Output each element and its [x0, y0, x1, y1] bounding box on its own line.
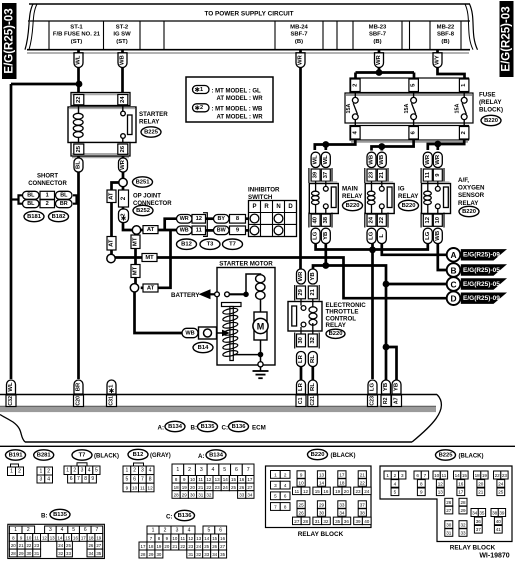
svg-text:26: 26 — [446, 500, 452, 505]
solenoid connector box w/ circle — [199, 327, 217, 339]
svg-text:7: 7 — [95, 527, 98, 533]
svg-text:B:: B: — [191, 425, 198, 432]
ECM pin C20 label BR — [74, 380, 83, 394]
svg-text:MB-24: MB-24 — [290, 24, 308, 30]
svg-text:12: 12 — [42, 535, 47, 540]
wire L IG relay to A arrow — [382, 244, 447, 255]
svg-text:B220: B220 — [484, 118, 498, 124]
svg-text:35: 35 — [479, 510, 485, 515]
svg-text:A:: A: — [158, 425, 165, 432]
svg-text:3: 3 — [176, 527, 179, 533]
svg-text:31: 31 — [315, 519, 321, 524]
starter relay coil — [73, 113, 83, 119]
solenoid S terminal arrow — [222, 330, 230, 337]
starter relay pin 22 — [74, 95, 84, 105]
svg-text:22: 22 — [379, 216, 385, 223]
a/f oxygen sensor relay pin 11 — [423, 169, 432, 181]
svg-text:(BLACK): (BLACK) — [331, 453, 356, 459]
svg-text:RELAY: RELAY — [139, 119, 160, 126]
svg-text:24: 24 — [364, 489, 370, 494]
svg-text:10: 10 — [435, 216, 441, 223]
svg-text:20: 20 — [344, 489, 350, 494]
svg-text:B135: B135 — [201, 424, 216, 430]
svg-text:WR: WR — [425, 154, 431, 165]
main relay wire label YB right — [321, 228, 330, 243]
to power supply circuit band — [25, 4, 478, 53]
junction dot motor ground — [258, 352, 264, 358]
svg-text:27: 27 — [96, 543, 101, 548]
wire AT box to WB11 and WR12 — [141, 229, 177, 232]
svg-text:ST-2: ST-2 — [116, 24, 129, 30]
svg-text:23: 23 — [188, 544, 193, 549]
svg-text:10: 10 — [190, 477, 196, 482]
svg-text:T7: T7 — [79, 452, 86, 458]
svg-text:29: 29 — [182, 492, 188, 497]
svg-text:MT: MT — [133, 266, 139, 275]
svg-text:13: 13 — [215, 477, 221, 482]
svg-text:4: 4 — [47, 476, 50, 482]
svg-text:21: 21 — [379, 171, 385, 178]
svg-text:38: 38 — [492, 510, 498, 515]
label MT lower — [131, 265, 140, 278]
svg-text:OXYGEN: OXYGEN — [458, 185, 485, 192]
pin label BY 8 — [214, 215, 230, 224]
svg-text:30: 30 — [319, 510, 325, 515]
svg-text:3: 3 — [200, 467, 203, 473]
starter relay contact bar — [128, 115, 133, 135]
svg-text:BY: BY — [217, 216, 225, 222]
svg-text:10: 10 — [434, 473, 440, 478]
svg-text:BR: BR — [60, 201, 68, 207]
svg-text:SHORT: SHORT — [37, 174, 58, 180]
svg-text:39: 39 — [313, 171, 319, 178]
wire 11 to BW — [206, 229, 214, 232]
svg-text:9: 9 — [300, 472, 303, 477]
svg-text:A:: A: — [198, 453, 205, 460]
svg-text:25: 25 — [76, 145, 82, 152]
svg-text:ST-1: ST-1 — [70, 24, 83, 30]
svg-text:21: 21 — [19, 543, 24, 548]
svg-text:5: 5 — [223, 467, 226, 473]
a/f oxygen sensor relay pin 12 — [423, 214, 432, 226]
svg-text:B136: B136 — [178, 513, 193, 519]
svg-text:30: 30 — [190, 492, 196, 497]
svg-text:WB: WB — [180, 228, 189, 234]
svg-text:B14: B14 — [198, 345, 209, 351]
relay block B225 grid — [380, 466, 512, 542]
svg-text:MB-22: MB-22 — [437, 24, 455, 30]
svg-text:B220: B220 — [311, 452, 325, 458]
svg-text:LR: LR — [298, 382, 304, 391]
svg-text:4: 4 — [88, 468, 91, 474]
ig relay wire label WB left — [367, 152, 376, 167]
junction circle AT lower — [130, 284, 138, 292]
oval B12 (GRAY) — [128, 449, 148, 459]
etc relay coil — [309, 307, 317, 313]
svg-text:(ST): (ST) — [71, 39, 82, 45]
ig relay pin 21 — [377, 169, 386, 181]
wire contact to coil — [230, 293, 247, 295]
connector MB-24 SBF-7 — [290, 24, 308, 45]
svg-text:11: 11 — [442, 473, 447, 478]
a/f oxygen sensor relay name text — [458, 177, 485, 207]
junction dot WL branch — [76, 81, 83, 88]
connector MB-23 SBF-7 — [369, 24, 387, 45]
svg-text:TO POWER SUPPLY CIRCUIT: TO POWER SUPPLY CIRCUIT — [204, 11, 293, 18]
svg-text:13: 13 — [196, 536, 201, 541]
svg-text:LG: LG — [313, 231, 319, 240]
svg-text:C31: C31 — [109, 396, 115, 406]
svg-text:35: 35 — [96, 551, 101, 556]
svg-text:33: 33 — [339, 502, 345, 507]
svg-text:(ST): (ST) — [116, 39, 127, 45]
svg-text:B:: B: — [41, 513, 48, 520]
short connector B181/B182 — [11, 191, 77, 207]
ig relay pin 23 — [367, 169, 376, 181]
ECM pin C23 label LG — [368, 380, 377, 394]
svg-text:BL: BL — [27, 201, 35, 207]
oval B191 — [6, 450, 26, 460]
svg-text:3: 3 — [49, 527, 52, 533]
pin label WB 11 — [177, 226, 193, 235]
svg-text:25: 25 — [299, 502, 305, 507]
wire fuse4 to main relay pins — [315, 140, 356, 150]
oval B281 — [34, 450, 54, 460]
svg-text:B135: B135 — [53, 512, 68, 518]
pin label BW 9 — [214, 226, 230, 235]
svg-text:4: 4 — [284, 483, 287, 488]
svg-text:33: 33 — [204, 552, 209, 557]
svg-text:D: D — [450, 294, 456, 304]
oval B181 — [24, 211, 44, 221]
svg-text:25: 25 — [204, 544, 209, 549]
oval B225 (BLACK) — [436, 450, 456, 460]
starter relay contact circle upper — [121, 111, 126, 116]
svg-text:3: 3 — [81, 468, 84, 474]
label AT at lower junction — [143, 284, 158, 292]
svg-text:RL: RL — [310, 355, 316, 363]
fuse 15A no.1 — [346, 92, 358, 127]
svg-text:27: 27 — [294, 519, 300, 524]
svg-text:F/B FUSE NO. 21: F/B FUSE NO. 21 — [53, 32, 101, 38]
wire YB net to ETC pin21 and down to ECM — [313, 266, 386, 381]
svg-text:7: 7 — [274, 504, 277, 509]
svg-text:34: 34 — [472, 510, 478, 515]
svg-text:30: 30 — [298, 336, 304, 343]
wire WL branch to left rail — [11, 83, 79, 86]
svg-text:4: 4 — [61, 527, 64, 533]
wire WR starter relay pin26 to joint connector — [122, 156, 125, 179]
svg-text:M: M — [257, 322, 265, 332]
svg-text:C:: C: — [166, 514, 173, 521]
svg-text:AT: AT — [109, 239, 115, 247]
ig relay coil — [371, 181, 373, 191]
svg-text:N: N — [276, 204, 280, 210]
a/f oxygen sensor relay coil — [427, 181, 429, 191]
connector B:B135 grid — [8, 524, 105, 558]
svg-text:SBF-7: SBF-7 — [290, 32, 308, 38]
svg-text:14: 14 — [57, 535, 62, 540]
svg-text:24: 24 — [58, 543, 63, 548]
junction dot WR feed — [376, 69, 383, 76]
svg-text:(B): (B) — [373, 39, 381, 45]
svg-text:24: 24 — [120, 96, 126, 103]
svg-text:1: 1 — [274, 472, 277, 477]
starter plunger T-bar and rod — [222, 303, 242, 307]
label WY MB-22 — [433, 53, 442, 68]
svg-text:8: 8 — [284, 504, 287, 509]
svg-text:WB: WB — [185, 330, 194, 336]
svg-text:4: 4 — [212, 467, 215, 473]
svg-text:5: 5 — [394, 490, 397, 495]
wire fuse2 to AF relay pins — [428, 140, 464, 150]
op joint connector 2-circuit box — [119, 190, 129, 207]
svg-text:7: 7 — [247, 467, 250, 473]
svg-text:13: 13 — [50, 535, 55, 540]
svg-text:24: 24 — [498, 481, 504, 486]
svg-text:24: 24 — [223, 485, 229, 490]
svg-text:17: 17 — [141, 544, 146, 549]
svg-text:B225: B225 — [144, 129, 159, 135]
main relay pin bracket bottom — [308, 213, 310, 228]
legend note box *1 *2 model table — [186, 77, 273, 122]
svg-text:32: 32 — [196, 552, 201, 557]
etc relay out label RL — [308, 352, 317, 367]
svg-text:39: 39 — [499, 510, 505, 515]
ground symbol — [260, 367, 262, 371]
oval B220 (BLACK) — [308, 449, 328, 459]
svg-text:WR: WR — [120, 159, 126, 170]
wire WR from MB-23 to fuse block — [378, 50, 381, 73]
oval B182 — [49, 211, 69, 221]
svg-text:C: C — [450, 279, 456, 289]
svg-text:11: 11 — [198, 477, 203, 482]
svg-text:16: 16 — [239, 477, 245, 482]
svg-text:6: 6 — [133, 476, 136, 482]
ig relay body box — [365, 184, 394, 214]
svg-text:20: 20 — [478, 481, 484, 486]
svg-text:ECM: ECM — [252, 425, 266, 432]
svg-text:31: 31 — [446, 530, 452, 535]
svg-text:8: 8 — [149, 476, 152, 482]
svg-text:B182: B182 — [52, 214, 66, 220]
svg-text:2: 2 — [27, 527, 30, 533]
ig relay pin bracket top — [364, 168, 366, 183]
a/f oxygen sensor relay pin bracket bottom — [420, 213, 422, 228]
junction circle MT/AT split — [132, 226, 140, 234]
connector T7 pins — [77, 463, 87, 467]
wire WB from ST-2 to starter relay pin 24 — [121, 50, 124, 93]
svg-text:7: 7 — [424, 473, 427, 478]
svg-text:YB: YB — [383, 383, 389, 391]
svg-text:6: 6 — [70, 476, 73, 482]
etc relay out label LR — [297, 352, 306, 367]
svg-text:1: 1 — [152, 527, 155, 533]
svg-text:10: 10 — [172, 536, 177, 541]
wire MT line to D arrow — [115, 258, 447, 299]
svg-text:1: 1 — [10, 469, 13, 475]
svg-text:5: 5 — [72, 527, 75, 533]
svg-text:23: 23 — [215, 485, 221, 490]
svg-text:LG: LG — [370, 382, 376, 391]
svg-text:(B): (B) — [295, 39, 303, 45]
svg-text:1: 1 — [66, 468, 69, 474]
svg-text:BW: BW — [217, 228, 227, 234]
oval B220 fuse block — [481, 115, 501, 125]
svg-text:B220: B220 — [346, 203, 360, 209]
svg-text:36: 36 — [476, 519, 482, 524]
svg-text:38: 38 — [360, 510, 366, 515]
arrow D E/G(R25)-09 — [447, 291, 507, 305]
svg-text:19: 19 — [182, 485, 188, 490]
a/f oxygen sensor relay pin 10 — [433, 214, 442, 226]
svg-text:24: 24 — [196, 544, 201, 549]
svg-text:6: 6 — [284, 494, 287, 499]
a/f oxygen sensor relay wire label LG left — [423, 228, 432, 243]
main relay coil — [315, 181, 317, 191]
svg-text:21: 21 — [478, 490, 484, 495]
svg-text:C20: C20 — [76, 396, 82, 406]
junction dot AF relay feed — [434, 141, 441, 148]
wire WY from MB-22 to fuse block — [438, 50, 465, 79]
svg-text:MT: MT — [133, 237, 139, 246]
main relay name text — [342, 186, 363, 201]
svg-text:28: 28 — [303, 519, 309, 524]
svg-text:18: 18 — [339, 480, 345, 485]
svg-text:13: 13 — [438, 490, 444, 495]
starter relay top pin row box — [71, 93, 130, 106]
svg-text:B251: B251 — [136, 179, 151, 185]
svg-text:26: 26 — [88, 543, 93, 548]
svg-text:1: 1 — [386, 473, 389, 478]
svg-text:21: 21 — [310, 288, 316, 295]
main relay pin 40 — [311, 214, 320, 226]
svg-text:10: 10 — [132, 485, 138, 490]
svg-text:RELAY: RELAY — [398, 193, 419, 200]
svg-text:7: 7 — [141, 476, 144, 482]
svg-text:6: 6 — [416, 473, 419, 478]
svg-text:37: 37 — [323, 171, 329, 178]
svg-text:RELAY: RELAY — [342, 193, 363, 200]
svg-text:2: 2 — [18, 469, 21, 475]
svg-text:WR: WR — [298, 54, 304, 65]
svg-text:WR: WR — [298, 271, 304, 282]
svg-text:23: 23 — [369, 171, 375, 178]
svg-text:2: 2 — [394, 473, 397, 478]
page label bar right E/G(R25)-03 — [500, 1, 514, 77]
svg-text:25: 25 — [231, 485, 237, 490]
svg-text:22: 22 — [76, 96, 82, 103]
svg-text:2: 2 — [188, 467, 191, 473]
svg-text:WR: WR — [376, 54, 382, 65]
svg-text:33: 33 — [66, 551, 71, 556]
fuse block feed line from MB-23 — [356, 71, 415, 74]
svg-text:6: 6 — [235, 467, 238, 473]
svg-text:IG SW: IG SW — [113, 32, 131, 38]
svg-text:14: 14 — [223, 477, 229, 482]
svg-text:(RELAY: (RELAY — [479, 99, 502, 106]
svg-text:AT: AT — [147, 227, 155, 233]
svg-text:AT MODEL : WR: AT MODEL : WR — [217, 96, 264, 102]
svg-text:B220: B220 — [329, 331, 343, 337]
svg-text:2: 2 — [120, 196, 127, 200]
svg-text:MAIN: MAIN — [342, 186, 358, 193]
svg-text:40: 40 — [364, 519, 370, 524]
svg-text:37: 37 — [476, 527, 482, 532]
svg-text:C:: C: — [222, 425, 229, 432]
svg-text:2: 2 — [164, 527, 167, 533]
svg-text:22: 22 — [206, 485, 212, 490]
svg-text:R2: R2 — [383, 397, 389, 404]
svg-text:41: 41 — [496, 527, 502, 532]
svg-text:30: 30 — [26, 551, 31, 556]
svg-text:4: 4 — [394, 481, 397, 486]
svg-text:17: 17 — [458, 490, 464, 495]
svg-text:B220: B220 — [402, 203, 416, 209]
etc relay pin label YB — [308, 269, 317, 284]
ECM pin C31 label &#160;1 — [107, 380, 116, 394]
oval B12 — [177, 239, 197, 249]
svg-text:RELAY BLOCK: RELAY BLOCK — [298, 531, 344, 538]
etc relay pin brackets bottom — [294, 333, 296, 349]
svg-text:35: 35 — [220, 552, 225, 557]
svg-text:B191: B191 — [9, 452, 24, 458]
svg-text:E/G(R25)-03: E/G(R25)-03 — [501, 6, 513, 71]
etc relay pin 30 — [297, 334, 306, 347]
svg-text:C32: C32 — [8, 396, 14, 406]
arrow C E/G(R25)-05 — [447, 277, 507, 291]
svg-text:YB: YB — [310, 272, 316, 280]
svg-text:32: 32 — [58, 551, 63, 556]
svg-text:(BLACK): (BLACK) — [94, 454, 119, 460]
svg-text:6: 6 — [84, 527, 87, 533]
svg-text:5: 5 — [95, 468, 98, 474]
svg-text:16: 16 — [458, 481, 464, 486]
svg-text:19: 19 — [156, 544, 161, 549]
svg-text:3: 3 — [39, 476, 42, 482]
svg-text:18: 18 — [174, 485, 180, 490]
svg-text:28: 28 — [460, 500, 466, 505]
svg-text:34: 34 — [88, 551, 93, 556]
svg-text:17: 17 — [247, 477, 253, 482]
starter relay body box — [68, 107, 136, 143]
page label bar left E/G(R25)-03 — [2, 3, 17, 79]
MT rail junction circle — [107, 254, 115, 262]
oval T3 — [200, 239, 220, 249]
svg-text:WB: WB — [120, 55, 126, 65]
svg-text:34: 34 — [247, 492, 253, 497]
label WR MB-23 — [375, 53, 384, 68]
svg-text:STARTER: STARTER — [139, 111, 168, 118]
wire YB main relay down — [324, 244, 327, 266]
wire up to solenoid coil — [246, 274, 261, 294]
ig relay name text — [398, 186, 419, 201]
svg-text:SBF-7: SBF-7 — [369, 32, 387, 38]
svg-text:B225: B225 — [439, 452, 454, 458]
svg-text:E/G(R25)-09: E/G(R25)-09 — [463, 295, 500, 302]
wire 12 to BY — [206, 217, 214, 220]
wire coil to motor — [260, 299, 262, 313]
svg-text:1: 1 — [176, 467, 179, 473]
svg-text:31: 31 — [34, 551, 39, 556]
ig relay pin 24 — [367, 214, 376, 226]
svg-text:LR: LR — [298, 354, 304, 363]
starter relay contact circle lower — [121, 134, 126, 139]
svg-text:AT: AT — [109, 192, 115, 200]
ig relay wire label L right — [377, 228, 386, 243]
ig relay wire label LG left — [367, 228, 376, 243]
svg-text:5: 5 — [125, 476, 128, 482]
